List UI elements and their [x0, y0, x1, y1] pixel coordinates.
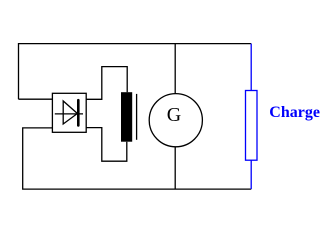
svg-text:G: G [167, 104, 181, 126]
svg-text:Charge: Charge [269, 104, 320, 121]
